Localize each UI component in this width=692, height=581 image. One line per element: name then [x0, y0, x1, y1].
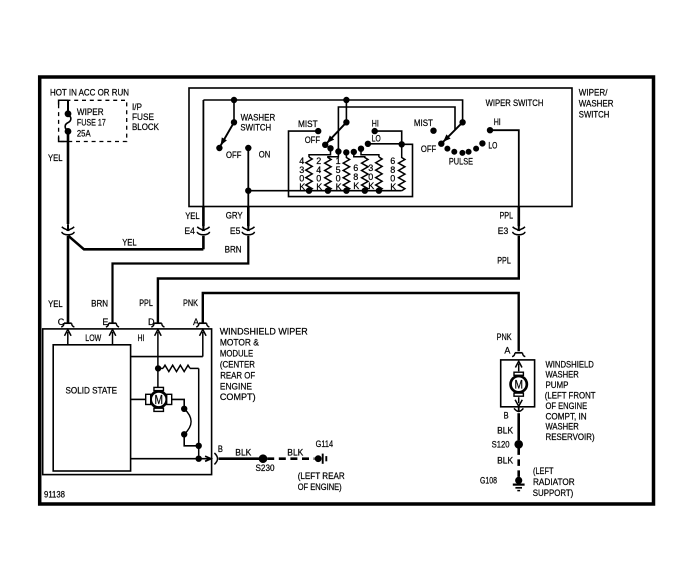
node pulse MIST contact — [316, 128, 321, 133]
svg-text:A: A — [504, 345, 510, 355]
node pulse contact 2 — [336, 149, 341, 154]
label pulse LO — [372, 134, 381, 144]
resistor R7 module — [163, 365, 190, 371]
svg-text:M: M — [154, 393, 163, 407]
node wiper MIST contact — [431, 128, 436, 133]
wiper motor M1 — [146, 387, 172, 411]
svg-text:SWITCH: SWITCH — [240, 123, 271, 133]
svg-text:K: K — [353, 181, 359, 191]
splice S120 — [515, 441, 523, 449]
terminal E — [102, 317, 119, 327]
svg-text:BLOCK: BLOCK — [132, 122, 159, 132]
label BLK right — [287, 448, 303, 458]
pin arrow pump bottom — [515, 397, 522, 406]
label R3 150K — [336, 156, 342, 192]
label pulse MIST — [298, 119, 318, 129]
wire resistor bottom bus — [248, 190, 401, 192]
wire R7 to park rail — [190, 368, 199, 458]
label WIPER/WASHER SWITCH — [579, 88, 614, 120]
label YEL at C — [48, 299, 63, 309]
svg-text:BLK: BLK — [497, 456, 513, 466]
svg-text:YEL: YEL — [122, 238, 137, 248]
label SOLID STATE — [66, 386, 118, 396]
resistor R5 30K — [376, 157, 382, 191]
svg-text:91138: 91138 — [44, 489, 65, 499]
svg-text:E: E — [102, 317, 108, 327]
node R5 bottom — [376, 188, 381, 193]
node pulse OFF contact — [323, 142, 328, 147]
terminal C — [58, 317, 75, 327]
svg-text:MOTOR &: MOTOR & — [220, 338, 259, 348]
label S120 — [492, 440, 510, 450]
svg-text:SUPPORT): SUPPORT) — [533, 488, 574, 498]
wire pulse pivot drop — [345, 100, 347, 120]
label HOT IN ACC OR RUN — [50, 87, 129, 97]
svg-text:WIPER: WIPER — [77, 107, 104, 117]
wire R4 top link — [354, 152, 365, 158]
svg-text:LO: LO — [488, 141, 497, 151]
node pulse HI contact — [372, 128, 377, 133]
svg-text:E3: E3 — [498, 226, 509, 236]
label E3 — [498, 226, 509, 236]
label BLK left — [235, 448, 251, 458]
pin arrow pump top — [515, 361, 522, 371]
svg-text:E5: E5 — [230, 226, 241, 236]
svg-text:OFF: OFF — [305, 135, 321, 145]
pin arrow B — [205, 456, 211, 461]
svg-text:ENGINE: ENGINE — [220, 381, 252, 391]
svg-text:C: C — [58, 317, 65, 327]
label R6 680K — [390, 156, 396, 192]
node R3 bottom — [344, 188, 349, 193]
svg-text:HI: HI — [372, 118, 379, 128]
node wiper HI contact — [487, 128, 492, 133]
label LEFT RADIATOR SUPPORT — [533, 466, 575, 498]
svg-text:M: M — [514, 378, 523, 392]
wire LO to common node — [368, 143, 400, 145]
node washer switch feed — [231, 97, 236, 102]
connector E4 — [197, 224, 209, 235]
node pulse contact 3 — [344, 150, 349, 155]
svg-text:WIPER/: WIPER/ — [579, 88, 608, 98]
park switch arc — [184, 409, 191, 435]
svg-text:BLK: BLK — [497, 425, 513, 435]
windshield wiper motor module box — [43, 329, 212, 475]
label diagram number 91138 — [44, 489, 65, 499]
label PNK at pump — [497, 332, 512, 342]
svg-text:LOW: LOW — [85, 333, 101, 343]
svg-text:PUMP: PUMP — [546, 380, 569, 390]
label S230 — [256, 463, 275, 473]
node wiper LO contact — [480, 141, 485, 146]
svg-text:BRN: BRN — [225, 245, 242, 255]
wire BLK B to S230 — [219, 457, 260, 460]
svg-text:MODULE: MODULE — [220, 349, 253, 359]
node washer ON contact — [246, 145, 251, 150]
svg-text:BLK: BLK — [287, 448, 303, 458]
label BRN harness — [225, 245, 242, 255]
resistor R4 68K — [362, 158, 368, 191]
svg-text:I/P: I/P — [132, 102, 142, 112]
svg-text:PNK: PNK — [183, 298, 198, 308]
label YEL fuse output — [48, 153, 63, 163]
resistor R3 150K — [343, 158, 349, 191]
node R2 bottom — [325, 188, 330, 193]
wire BLK pump to S120 — [517, 413, 520, 440]
label LOW — [85, 333, 101, 343]
node wiper PULSE contacts — [445, 146, 479, 155]
splice S230 — [259, 455, 267, 463]
label I/P FUSE BLOCK — [132, 102, 159, 132]
svg-text:OFF: OFF — [226, 150, 242, 160]
wire R6 top link — [401, 144, 403, 158]
svg-text:MIST: MIST — [414, 118, 433, 128]
wire park switch to rail — [184, 434, 199, 446]
node park rail junction — [196, 443, 201, 448]
svg-text:COMPT): COMPT) — [220, 392, 256, 402]
wire washer pivot drop — [233, 100, 235, 120]
node motor feed junction — [155, 366, 160, 371]
wire motor to park switch — [171, 399, 184, 406]
label G114 — [316, 439, 334, 449]
wire A input to solid state — [131, 356, 203, 358]
svg-text:OF ENGINE: OF ENGINE — [546, 401, 588, 411]
label R4 68K — [353, 163, 359, 191]
label E5 — [230, 226, 241, 236]
svg-text:S230: S230 — [256, 463, 275, 473]
svg-text:D: D — [148, 317, 155, 327]
svg-text:(LEFT REAR: (LEFT REAR — [298, 471, 345, 481]
node washer OFF contact — [217, 145, 222, 150]
label BRN at E — [91, 299, 108, 309]
wire R5 top link — [361, 149, 379, 157]
wire fuse top stub — [67, 100, 69, 113]
node R1 bottom — [306, 188, 311, 193]
connector E5 — [242, 224, 254, 235]
svg-text:COMPT, IN: COMPT, IN — [546, 411, 587, 421]
svg-text:WASHER: WASHER — [546, 422, 580, 432]
wire switch feed bus (inner top line) — [203, 100, 462, 226]
svg-text:E4: E4 — [184, 226, 195, 236]
wire arm output to wiper-switch arm — [338, 107, 455, 152]
node bus at ON wire — [246, 188, 251, 193]
pin arrow D — [155, 330, 162, 390]
wire BLK S230 to G114 — [267, 457, 314, 460]
svg-text:BLK: BLK — [235, 448, 251, 458]
svg-text:GRY: GRY — [226, 211, 243, 221]
label WIPER SWITCH — [486, 98, 544, 108]
svg-text:RADIATOR: RADIATOR — [533, 477, 575, 487]
label R1 430K — [299, 156, 305, 192]
label B motor — [218, 444, 223, 454]
wire HI to common node — [375, 131, 402, 142]
wire solid state to terminal B — [131, 458, 210, 460]
svg-text:WASHER: WASHER — [579, 99, 614, 109]
label WIPER FUSE 17 25A — [77, 107, 106, 138]
wire PNK terminal A to washer pump — [203, 293, 519, 351]
svg-text:G114: G114 — [316, 439, 334, 449]
label pulse HI — [372, 118, 379, 128]
svg-text:(CENTER: (CENTER — [220, 360, 255, 370]
svg-text:K: K — [368, 181, 374, 191]
label PNK at A — [183, 298, 198, 308]
fuse F1 WIPER FUSE 17 25A — [65, 111, 71, 134]
node pulse LO contact — [365, 141, 370, 146]
pulse switch SW2 arm — [326, 120, 349, 145]
svg-text:PULSE: PULSE — [449, 157, 473, 167]
svg-text:PPL: PPL — [500, 211, 514, 221]
svg-text:B: B — [218, 444, 223, 454]
svg-text:BRN: BRN — [91, 299, 108, 309]
svg-text:WASHER: WASHER — [241, 112, 276, 122]
wire PPL E3 to terminal D — [158, 236, 519, 323]
label R2 240K — [316, 156, 322, 192]
label BLK pump lower — [497, 456, 513, 466]
resistor R1 430K — [306, 157, 312, 191]
label YEL at E4 — [185, 211, 200, 221]
resistor R2 240K — [325, 158, 331, 191]
node wiper OFF contact — [439, 141, 444, 146]
wire HI contact to E3 drop — [490, 130, 519, 226]
washer pump motor M2 — [511, 372, 527, 396]
label PPL at D — [139, 298, 153, 308]
wire BLK S120 to G108 — [517, 448, 520, 477]
label WINDSHIELD WIPER MOTOR & MODULE — [220, 327, 308, 403]
wiper switch SW3 arm — [442, 120, 466, 144]
wire to module resistor — [158, 367, 163, 369]
svg-text:OFF: OFF — [421, 144, 437, 154]
terminal B pump — [514, 407, 523, 412]
label YEL harness — [122, 238, 137, 248]
svg-text:(LEFT: (LEFT — [533, 466, 554, 476]
node pulse contact 1 — [328, 146, 333, 151]
label wiper LO — [488, 141, 497, 151]
label E4 — [184, 226, 195, 236]
svg-text:PNK: PNK — [497, 332, 512, 342]
label B pump — [504, 411, 509, 421]
wire YEL E4 to junction — [68, 236, 203, 250]
node resistor common junction — [399, 142, 404, 147]
svg-text:REAR OF: REAR OF — [220, 370, 255, 380]
wire YEL down to terminal C — [67, 236, 70, 323]
label BLK pump upper — [497, 425, 513, 435]
svg-text:OF ENGINE): OF ENGINE) — [298, 482, 342, 492]
svg-text:HI: HI — [494, 117, 501, 127]
label washer ON — [259, 150, 271, 160]
washer switch SW1 arm — [220, 120, 237, 147]
label HI motor — [138, 333, 145, 343]
resistor R6 680K — [399, 158, 405, 191]
svg-text:PPL: PPL — [139, 298, 153, 308]
label WASHER SWITCH — [240, 112, 275, 132]
pin arrow C — [65, 330, 72, 345]
label wiper OFF — [421, 144, 437, 154]
svg-text:25A: 25A — [77, 128, 91, 138]
label R5 30K — [368, 163, 374, 191]
label wiper PULSE — [449, 157, 473, 167]
park switch contacts — [182, 406, 187, 437]
node pulse contact 4 — [351, 149, 356, 154]
I/P fuse block dashed box — [59, 100, 127, 141]
label GRY at E5 — [226, 211, 243, 221]
washer pump box — [501, 360, 535, 407]
svg-text:YEL: YEL — [48, 299, 63, 309]
svg-text:MIST: MIST — [298, 119, 318, 129]
solid state module box — [53, 345, 130, 471]
connector E3 — [513, 224, 525, 235]
svg-text:(LEFT FRONT: (LEFT FRONT — [545, 391, 596, 401]
terminal D — [148, 317, 165, 327]
node pulse switch feed — [344, 97, 349, 102]
label PPL harness — [497, 256, 511, 266]
wire solid state to motor — [131, 398, 146, 400]
svg-text:YEL: YEL — [185, 211, 200, 221]
wire R1 top link — [309, 148, 331, 157]
label G108 — [480, 476, 497, 486]
svg-text:HI: HI — [138, 333, 145, 343]
ground G114 — [315, 454, 326, 464]
svg-text:LO: LO — [372, 134, 381, 144]
wire BRN E5 to terminal E — [113, 236, 249, 323]
svg-text:PPL: PPL — [497, 256, 511, 266]
label wiper MIST — [414, 118, 433, 128]
label wiper HI — [494, 117, 501, 127]
pin arrow E — [109, 330, 116, 345]
svg-text:ON: ON — [259, 150, 271, 160]
label washer OFF — [226, 150, 242, 160]
svg-text:HOT IN ACC OR RUN: HOT IN ACC OR RUN — [50, 87, 129, 97]
label LEFT REAR OF ENGINE — [298, 471, 345, 492]
wire MIST to resistor-common — [289, 131, 413, 197]
svg-text:RESERVOIR): RESERVOIR) — [546, 432, 595, 442]
wire washer ON down to E5 — [247, 148, 249, 226]
svg-text:SWITCH: SWITCH — [579, 110, 610, 120]
node B line junction — [196, 456, 201, 461]
node pulse contact 5 — [358, 146, 363, 151]
wire YEL from fuse down — [67, 131, 70, 224]
connector inline on YEL — [62, 224, 74, 235]
pin arrow A — [200, 330, 207, 357]
label PPL at E3 — [500, 211, 514, 221]
svg-text:WIPER SWITCH: WIPER SWITCH — [486, 98, 544, 108]
svg-text:S120: S120 — [492, 440, 510, 450]
svg-text:FUSE 17: FUSE 17 — [77, 117, 106, 127]
svg-text:WINDSHIELD: WINDSHIELD — [546, 359, 595, 369]
wiper/washer switch outline box — [189, 88, 572, 207]
terminal A pump — [504, 345, 525, 356]
svg-text:YEL: YEL — [48, 153, 63, 163]
svg-text:B: B — [504, 411, 509, 421]
svg-text:FUSE: FUSE — [132, 112, 154, 122]
svg-text:A: A — [193, 317, 199, 327]
ground G108 — [513, 477, 525, 490]
wire R2 top link — [328, 152, 339, 159]
terminal B cup — [214, 453, 217, 464]
svg-text:WINDSHIELD WIPER: WINDSHIELD WIPER — [220, 327, 308, 337]
label WINDSHIELD WASHER PUMP — [545, 359, 596, 442]
node R4 bottom — [362, 188, 367, 193]
label pulse OFF — [305, 135, 321, 145]
wire R3 top link — [345, 152, 347, 158]
terminal A — [193, 317, 209, 327]
svg-text:G108: G108 — [480, 476, 497, 486]
svg-text:SOLID STATE: SOLID STATE — [66, 386, 118, 396]
svg-text:WASHER: WASHER — [546, 370, 580, 380]
